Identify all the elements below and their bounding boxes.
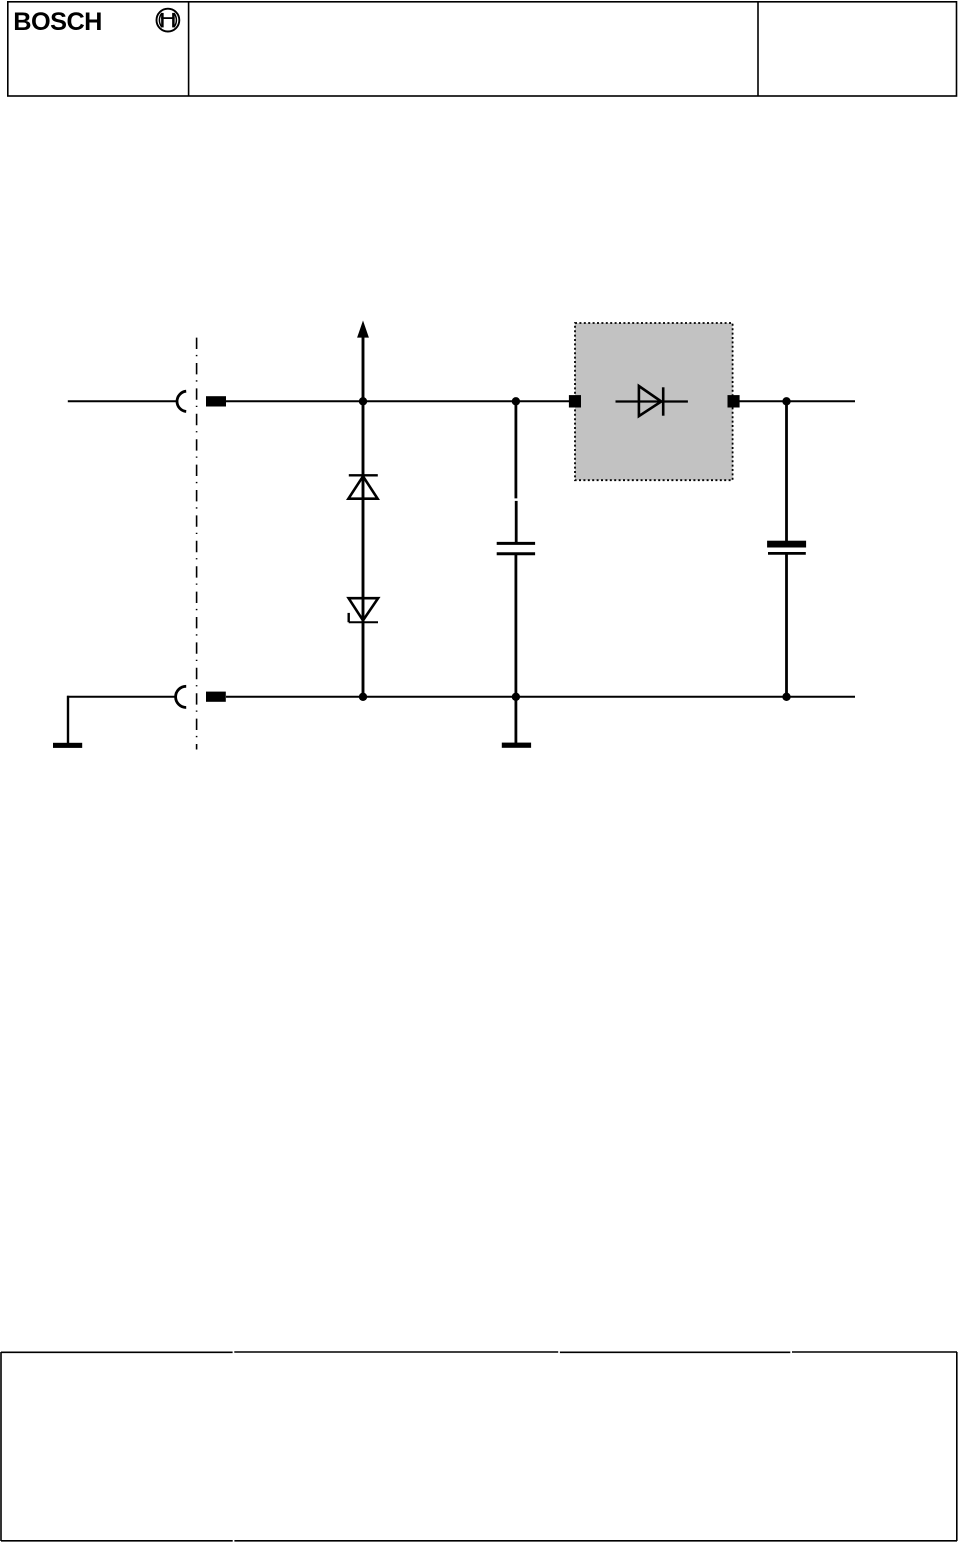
svg-text:BOSCH: BOSCH bbox=[13, 8, 102, 36]
